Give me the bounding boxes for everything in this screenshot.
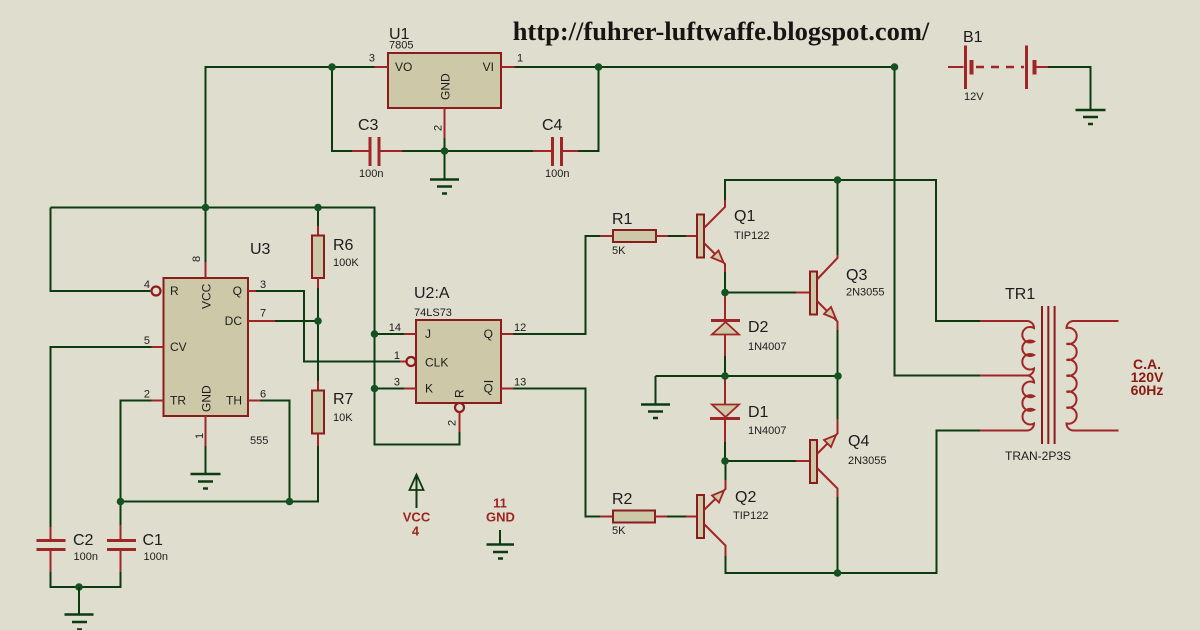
wire Q4 emitter up <box>837 376 839 419</box>
svg-text:C3: C3 <box>358 117 379 134</box>
wire D2 to node <box>724 356 726 376</box>
wire R2 to Q2 base <box>667 516 686 518</box>
svg-text:http://fuhrer-luftwaffe.blogsp: http://fuhrer-luftwaffe.blogspot.com/ <box>513 16 930 46</box>
svg-text:14: 14 <box>389 322 401 334</box>
wire Q3 collector up <box>837 180 839 255</box>
transformer TR1 <box>980 286 1119 463</box>
wire Q3 emitter down <box>837 330 839 376</box>
svg-text:TR: TR <box>170 394 186 408</box>
svg-text:J: J <box>425 327 431 341</box>
svg-text:Q3: Q3 <box>846 267 867 284</box>
wire battery to gnd <box>1048 67 1091 109</box>
svg-text:Q4: Q4 <box>848 433 869 450</box>
svg-text:5K: 5K <box>612 245 626 257</box>
wire Q2 collector bottom rail <box>726 431 981 574</box>
wire VCC rail <box>51 208 460 445</box>
svg-text:4: 4 <box>412 524 420 539</box>
transistor Q4 <box>796 419 887 497</box>
ground below U3 <box>191 446 221 489</box>
svg-text:100n: 100n <box>545 168 569 180</box>
svg-text:K: K <box>425 382 433 396</box>
svg-text:7: 7 <box>260 308 266 320</box>
svg-text:1: 1 <box>517 53 523 65</box>
svg-text:2: 2 <box>144 389 150 401</box>
svg-text:GND: GND <box>439 73 453 100</box>
svg-text:Q1: Q1 <box>734 208 755 225</box>
svg-text:Q: Q <box>484 327 493 341</box>
svg-text:8: 8 <box>191 256 203 262</box>
flip-flop U2:A <box>389 285 527 432</box>
svg-text:60Hz: 60Hz <box>1131 382 1164 398</box>
svg-text:10K: 10K <box>333 412 353 424</box>
wire rail to pin4 <box>51 208 151 292</box>
wire C4 to rail <box>578 67 599 151</box>
wire bottom 555 net <box>121 446 319 502</box>
ground battery <box>1076 110 1106 124</box>
svg-text:DC: DC <box>225 314 243 328</box>
svg-text:Q: Q <box>233 284 242 298</box>
svg-text:3: 3 <box>394 377 400 389</box>
resistor R6 <box>312 226 359 288</box>
wire C3 branch <box>332 67 352 151</box>
capacitor C4 <box>533 117 578 180</box>
wire R6 top <box>317 208 319 227</box>
wire C2 C1 bottom rail <box>51 572 121 587</box>
svg-text:1: 1 <box>394 350 400 362</box>
title <box>513 16 930 46</box>
svg-text:1: 1 <box>194 433 206 439</box>
svg-text:C4: C4 <box>542 117 563 134</box>
regulator U1 <box>369 26 523 138</box>
wire pin5 CV to C2 <box>51 347 152 528</box>
timer U3 <box>144 208 275 448</box>
wire Q pin12 to R1 <box>513 236 600 334</box>
svg-text:1N4007: 1N4007 <box>748 425 787 437</box>
svg-text:U2:A: U2:A <box>414 285 450 302</box>
diode D2 <box>711 293 787 357</box>
transistor Q1 <box>686 200 769 272</box>
wire VI rail <box>515 66 895 68</box>
svg-text:CLK: CLK <box>425 356 448 370</box>
wire pin6 TH down <box>260 401 290 502</box>
svg-text:3: 3 <box>260 279 266 291</box>
wire VO rail to VCC rail <box>206 67 375 208</box>
power GND symbol <box>486 496 515 559</box>
svg-text:2: 2 <box>433 125 445 131</box>
power VCC symbol <box>403 475 431 539</box>
svg-text:VO: VO <box>395 60 412 74</box>
svg-text:GND: GND <box>200 385 214 412</box>
svg-text:GND: GND <box>486 510 515 525</box>
transistor Q3 <box>796 255 885 330</box>
svg-text:12V: 12V <box>964 91 984 103</box>
wire Q2 emitter up <box>725 461 727 480</box>
svg-text:Q2: Q2 <box>735 489 756 506</box>
resistor R1 <box>600 211 668 257</box>
svg-text:VI: VI <box>483 60 494 74</box>
svg-text:100K: 100K <box>333 257 359 269</box>
ground below U1 <box>430 151 459 194</box>
wire R1 to Q1 base <box>668 235 686 237</box>
wire node to Q4 base <box>725 460 796 462</box>
wire Q1 collector rail to transformer <box>725 180 980 321</box>
transistor Q2 <box>686 480 768 556</box>
wire J pin14 <box>375 333 405 335</box>
wire K pin3 <box>375 388 405 390</box>
svg-text:CV: CV <box>170 340 187 354</box>
wire Qbar pin13 to R2 <box>513 389 600 517</box>
svg-text:5K: 5K <box>612 525 626 537</box>
wire Q1 emitter node <box>725 272 796 293</box>
svg-text:U3: U3 <box>250 241 271 258</box>
svg-text:TR1: TR1 <box>1005 286 1035 303</box>
svg-text:R2: R2 <box>612 491 633 508</box>
wire pin2 TR to C1 <box>121 401 152 526</box>
svg-text:2N3055: 2N3055 <box>846 287 885 299</box>
capacitor C1 <box>107 525 168 572</box>
resistor R2 <box>600 491 667 537</box>
wire gnd node row <box>656 376 839 404</box>
svg-text:D2: D2 <box>748 319 769 336</box>
wire battery to center tap <box>895 67 981 376</box>
svg-text:B1: B1 <box>963 29 983 46</box>
svg-text:3: 3 <box>369 53 375 65</box>
svg-text:R7: R7 <box>333 391 354 408</box>
resistor R7 <box>312 381 354 446</box>
svg-text:6: 6 <box>260 389 266 401</box>
svg-text:11: 11 <box>493 496 507 511</box>
svg-text:R6: R6 <box>333 237 354 254</box>
wire 555 Q to CLK <box>256 291 407 362</box>
svg-text:TRAN-2P3S: TRAN-2P3S <box>1005 449 1071 463</box>
svg-text:13: 13 <box>514 377 526 389</box>
wire D1 to node <box>724 442 726 461</box>
wire R6 bottom to R7 top <box>317 288 319 381</box>
ground C2 C1 <box>65 583 94 629</box>
svg-text:555: 555 <box>250 435 268 447</box>
svg-text:VCC: VCC <box>403 510 431 525</box>
diode D1 <box>710 376 787 442</box>
ground mid (diode node) <box>641 405 670 419</box>
svg-text:5: 5 <box>144 335 150 347</box>
output label C.A. 120V 60Hz <box>1131 356 1164 398</box>
svg-text:Q: Q <box>484 382 493 396</box>
svg-text:R: R <box>453 389 467 398</box>
svg-text:100n: 100n <box>359 168 383 180</box>
svg-text:2: 2 <box>447 420 459 426</box>
svg-text:TH: TH <box>226 394 242 408</box>
svg-text:VCC: VCC <box>200 283 214 309</box>
svg-text:1N4007: 1N4007 <box>748 341 787 353</box>
svg-text:R1: R1 <box>612 211 633 228</box>
svg-text:TIP122: TIP122 <box>733 510 768 522</box>
capacitor C3 <box>352 117 402 180</box>
battery B1 <box>948 29 1048 103</box>
svg-text:2N3055: 2N3055 <box>848 455 887 467</box>
svg-text:TIP122: TIP122 <box>734 230 769 242</box>
svg-text:4: 4 <box>144 279 150 291</box>
wire pin2 to cap row <box>402 138 533 151</box>
svg-text:100n: 100n <box>144 551 168 563</box>
wire 555 DC to divider <box>275 320 318 322</box>
svg-text:7805: 7805 <box>389 40 413 52</box>
svg-text:74LS73: 74LS73 <box>414 307 452 319</box>
svg-text:C2: C2 <box>73 532 94 549</box>
svg-text:C1: C1 <box>143 532 164 549</box>
capacitor C2 <box>37 527 98 572</box>
svg-text:R: R <box>170 284 179 298</box>
svg-text:12: 12 <box>514 322 526 334</box>
svg-text:100n: 100n <box>74 551 98 563</box>
svg-text:D1: D1 <box>748 404 769 421</box>
wire Q4 collector down <box>837 497 839 573</box>
